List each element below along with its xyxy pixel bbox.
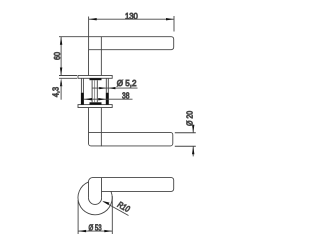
dimension line 38	[84, 98, 133, 100]
lever grip bar, top view	[89, 108, 173, 146]
dimension line 4,3	[60, 78, 62, 99]
dimension line diameter 20	[192, 125, 194, 157]
neck upper section	[89, 50, 102, 76]
lever grip bar, side view	[89, 37, 174, 50]
svg-text:130: 130	[125, 11, 138, 21]
extension lines for diameter 20	[175, 132, 196, 134]
neck lower section	[100, 108, 102, 133]
svg-text:Ø 53: Ø 53	[89, 223, 102, 233]
dimension line 60	[60, 37, 62, 76]
extension line right of 130	[173, 16, 175, 32]
left fixing screw	[81, 78, 84, 104]
dimension line diameter 53	[78, 230, 112, 232]
grip neck left edge with corner	[89, 178, 93, 198]
rose top plate	[78, 76, 112, 79]
svg-text:4,3: 4,3	[51, 87, 61, 97]
grip end cap	[89, 198, 102, 205]
spindle sides between plates	[92, 80, 97, 102]
leader line R10	[102, 201, 128, 216]
svg-text:60: 60	[52, 52, 62, 60]
extension lines for diameter 53	[77, 200, 79, 234]
spindle block above bottom plate	[90, 102, 102, 104]
neck boundary line in side view	[100, 37, 102, 50]
grip bar outline	[93, 178, 174, 192]
svg-text:38: 38	[122, 90, 130, 100]
grip neck right edge	[101, 178, 103, 198]
rose centre line	[94, 80, 96, 102]
lever grip, front view	[89, 178, 174, 205]
dimension line 130	[89, 18, 174, 20]
extension lines rose plate thickness	[59, 75, 77, 77]
neck boundary line in top view	[100, 133, 102, 147]
svg-text:Ø 20: Ø 20	[184, 111, 194, 126]
extension line for 60 dim	[59, 36, 89, 38]
leader line diameter 5,2	[93, 87, 138, 89]
extension line left of 130	[88, 17, 90, 37]
rose bottom plate	[78, 105, 112, 108]
svg-text:Ø 5,2: Ø 5,2	[117, 78, 137, 88]
svg-text:R10: R10	[116, 199, 132, 214]
spindle block under top plate	[90, 78, 102, 80]
rose circle, front view	[78, 182, 112, 215]
right fixing screw	[106, 78, 109, 104]
